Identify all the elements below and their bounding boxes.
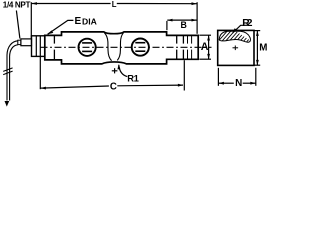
svg-text:N: N bbox=[235, 78, 242, 89]
svg-text:L: L bbox=[112, 0, 117, 9]
svg-text:B: B bbox=[181, 20, 187, 30]
svg-text:A: A bbox=[201, 41, 209, 53]
svg-text:R1: R1 bbox=[127, 72, 139, 83]
svg-text:R2: R2 bbox=[242, 18, 252, 29]
svg-text:E: E bbox=[75, 16, 82, 27]
svg-text:M: M bbox=[259, 43, 267, 54]
svg-text:1/4 NPT: 1/4 NPT bbox=[3, 1, 31, 10]
svg-text:DIA: DIA bbox=[82, 16, 97, 26]
svg-text:C: C bbox=[110, 82, 117, 93]
